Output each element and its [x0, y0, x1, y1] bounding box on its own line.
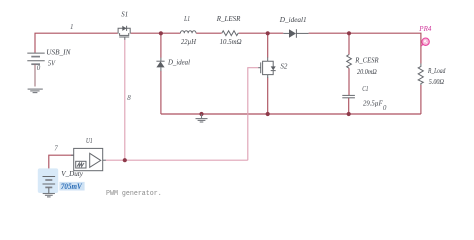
- svg-text:8: 8: [127, 94, 131, 102]
- wire C1 to rail: [348, 98, 350, 114]
- svg-text:1: 1: [70, 23, 74, 31]
- svg-text:22µH: 22µH: [181, 37, 197, 46]
- svg-text:S1: S1: [121, 9, 128, 18]
- wire net1 battery to S1: [35, 33, 118, 53]
- diode D_ideal: [156, 58, 164, 72]
- svg-text:29.5µF: 29.5µF: [363, 98, 383, 107]
- svg-text:R_LESR: R_LESR: [216, 14, 241, 23]
- junction node B top: [266, 31, 270, 35]
- S2 body diode arrow: [271, 66, 276, 70]
- wire PWM net S1 gate vertical: [124, 40, 126, 161]
- S1 body diode arrow: [122, 26, 126, 31]
- svg-text:R_CESR: R_CESR: [354, 56, 379, 65]
- svg-text:PR4: PR4: [418, 24, 431, 33]
- wire bottom ground rail: [161, 113, 421, 115]
- wire PWM net horizontal: [106, 159, 248, 161]
- switch S1: [118, 26, 131, 40]
- resistor R_LESR: [222, 31, 239, 36]
- wire R_LESR to D_ideal1: [239, 32, 283, 34]
- wire PWM net S2 gate: [248, 68, 259, 161]
- svg-text:V_Duty: V_Duty: [61, 169, 83, 178]
- resistor R_Load: [418, 64, 423, 86]
- diode D_ideal1: [283, 29, 308, 38]
- ground under USB_IN: [28, 89, 43, 93]
- svg-text:S2: S2: [280, 62, 287, 71]
- junction ground rail S2: [266, 112, 270, 116]
- capacitor C1: [342, 95, 355, 97]
- svg-text:D_ideal: D_ideal: [167, 58, 190, 67]
- svg-text:705mV: 705mV: [61, 182, 82, 191]
- svg-text:C1: C1: [362, 84, 368, 93]
- svg-text:20.0mΩ: 20.0mΩ: [357, 67, 377, 76]
- svg-text:5.00Ω: 5.00Ω: [429, 77, 445, 86]
- svg-text:7: 7: [54, 145, 58, 153]
- wire R_CESR to C1: [348, 68, 350, 95]
- svg-text:U1: U1: [86, 136, 93, 145]
- wire R_Load lower: [420, 85, 422, 114]
- battery V_Duty: [43, 177, 56, 194]
- svg-text:D_ideal1: D_ideal1: [279, 15, 307, 24]
- PWM source U1: [71, 148, 106, 170]
- wire S2 source: [267, 78, 269, 115]
- wire S2 drain: [267, 33, 269, 57]
- svg-text:10.5mΩ: 10.5mΩ: [220, 37, 243, 46]
- wire C branch upper: [348, 33, 350, 54]
- wire D_ideal branch vertical: [160, 33, 162, 58]
- wire S1 to L1: [131, 32, 181, 34]
- ground under V_Duty: [43, 194, 55, 197]
- inductor L1: [180, 31, 196, 34]
- svg-text:L1: L1: [183, 14, 190, 23]
- junction ground rail at ground symbol: [199, 112, 203, 116]
- svg-text:USB_IN: USB_IN: [46, 48, 71, 57]
- svg-text:0: 0: [383, 104, 387, 112]
- switch S2: [258, 57, 273, 78]
- wire D_ideal1 to output corner: [309, 33, 421, 63]
- junction node A top: [159, 31, 163, 35]
- svg-text:PWM generator.: PWM generator.: [106, 190, 162, 198]
- resistor R_CESR: [347, 55, 352, 69]
- junction node C top: [347, 31, 351, 35]
- value highlight 705mV: [59, 182, 84, 191]
- junction ground rail C1: [347, 112, 351, 116]
- V_Duty selection highlight: [38, 168, 58, 193]
- wire V_Duty to U1: [49, 155, 74, 175]
- svg-text:R_Load: R_Load: [427, 66, 445, 75]
- junction PWM line: [123, 158, 127, 162]
- battery USB_IN: [27, 53, 44, 86]
- ground at rail: [196, 114, 208, 122]
- svg-text:0: 0: [37, 64, 41, 72]
- wire L1 to R_LESR: [196, 32, 221, 34]
- probe PR4: [421, 38, 429, 46]
